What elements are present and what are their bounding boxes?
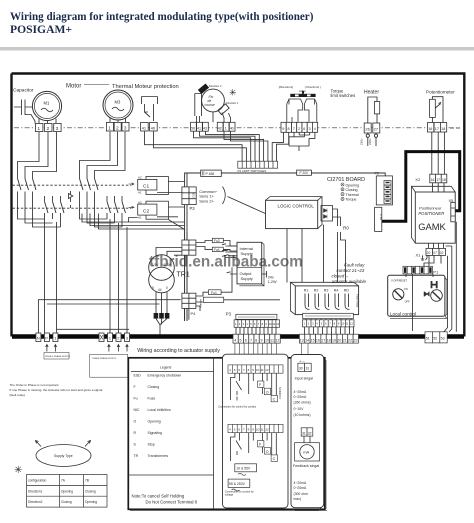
svg-text:Closing: Closing (61, 500, 72, 504)
mechanical interlock (69, 191, 73, 208)
connector X1 (426, 248, 446, 255)
wire heater supply (368, 133, 376, 146)
svg-text:Connection for control by: Connection for control by (225, 489, 255, 493)
wire C2 A1 left (129, 218, 138, 223)
bus terminals 13-23 (299, 334, 358, 343)
svg-text:3: 3 (124, 126, 127, 131)
knob declutch (431, 290, 443, 302)
svg-text:20: 20 (337, 338, 341, 342)
svg-text:4~20mA: 4~20mA (294, 481, 307, 485)
svg-text:Supply: Supply (241, 276, 253, 281)
svg-text:Emergency shutdown: Emergency shutdown (148, 374, 182, 378)
svg-text:02: 02 (440, 251, 444, 255)
svg-text:Opening: Opening (61, 489, 73, 493)
svg-text:P1: P1 (433, 269, 439, 274)
terminal P single (44, 333, 49, 342)
svg-text:S: S (134, 443, 137, 447)
svg-text:2: 2 (298, 127, 300, 131)
contactor coil C2 (129, 206, 135, 208)
svg-text:course: course (205, 103, 215, 107)
connector P2 strip on board (238, 161, 278, 168)
svg-text:4: 4 (234, 338, 236, 342)
svg-text:Potentiometer: Potentiometer (426, 89, 455, 94)
svg-text:P2 LIMIT SWITCHES: P2 LIMIT SWITCHES (238, 169, 267, 173)
terminal 18 (440, 123, 446, 133)
wire right bundle 1 (444, 256, 448, 332)
svg-text:Stop: Stop (148, 443, 155, 447)
svg-text:TR: TR (134, 454, 139, 458)
wire right bundle 2 (446, 246, 452, 332)
terminal 3 three (125, 333, 130, 342)
wire motor leader line (84, 84, 109, 86)
cam direction1 (218, 104, 229, 115)
terminal M3-2 (114, 122, 121, 131)
svg-text:10: 10 (256, 427, 260, 431)
terminal LS-43 (203, 122, 209, 131)
svg-text:Thermal Moteur protection: Thermal Moteur protection (112, 84, 179, 90)
connector P1 (403, 266, 433, 274)
wire neutral link (57, 328, 130, 330)
arrows single phase (46, 345, 57, 352)
connector X2 (430, 174, 447, 183)
connector label box right (303, 313, 354, 318)
svg-text:1: 1 (225, 126, 227, 130)
terminal 41 (141, 122, 149, 131)
terminal 26 (364, 123, 371, 133)
terminal M1-1 (36, 123, 43, 131)
svg-text:230v: 230v (360, 138, 364, 145)
terminal 17 (434, 123, 440, 133)
connector P2 right outer (376, 176, 392, 205)
wire limit switch bundle (194, 131, 268, 161)
relay bank 3d box (291, 282, 359, 314)
svg-text:8: 8 (288, 127, 290, 131)
svg-text:X1: X1 (416, 252, 422, 257)
contactor KM2 contacts upper (80, 179, 99, 191)
svg-text:Direction 1: Direction 1 (226, 101, 239, 105)
wire X2 to GAMK (433, 183, 445, 192)
svg-text:32: 32 (308, 431, 312, 435)
terminal 1 single (53, 333, 58, 342)
wire P5 to fuses (196, 241, 237, 256)
terminal M1-2 (45, 123, 52, 131)
svg-text:22: 22 (348, 338, 352, 342)
limit switch Fin de course (202, 89, 225, 112)
terminal 2 three (116, 333, 121, 342)
svg-text:6: 6 (245, 338, 247, 342)
terminal 1 three (108, 333, 113, 342)
svg-text:Local inhibition: Local inhibition (148, 408, 171, 412)
wire loop B3 (95, 132, 126, 227)
svg-text:10 & 55V: 10 & 55V (236, 467, 251, 471)
svg-text:Direction 2: Direction 2 (209, 84, 222, 88)
svg-text:2: 2 (116, 126, 119, 131)
terminal PE three (99, 333, 104, 342)
svg-text:Closing: Closing (148, 385, 160, 389)
wire loop A2 (25, 132, 53, 223)
svg-text:Positionneur: Positionneur (419, 205, 442, 210)
svg-text:Motor: Motor (66, 84, 81, 90)
svg-text:10: 10 (256, 368, 260, 372)
transformer TR1 (149, 255, 175, 281)
svg-text:8: 8 (255, 338, 257, 342)
wire heater/pot crossties (289, 135, 310, 151)
svg-text:9: 9 (261, 338, 263, 342)
connector P5 (182, 240, 196, 255)
svg-text:Fault relay: Fault relay (344, 263, 365, 268)
svg-text:30: 30 (299, 367, 303, 371)
fuse Fu4 (212, 247, 223, 252)
svg-text:GAMK: GAMK (418, 221, 446, 232)
feedback ranges (294, 481, 308, 501)
main frame (12, 74, 465, 337)
terminal tags TR1 (154, 313, 170, 319)
svg-text:41: 41 (197, 126, 201, 130)
svg-text:4: 4 (314, 127, 316, 131)
svg-text:41: 41 (142, 125, 147, 130)
local control box (390, 278, 447, 319)
svg-text:Transformers: Transformers (148, 454, 169, 458)
switch F row2 (258, 441, 264, 447)
internal/output supply 3d box (240, 242, 265, 285)
wire N to board supply (38, 300, 180, 333)
ellipse prong left (36, 441, 42, 447)
svg-text:17: 17 (436, 178, 440, 182)
svg-text:(260 ohms): (260 ohms) (294, 401, 311, 405)
svg-text:11: 11 (261, 368, 264, 372)
svg-text:NIC: NIC (134, 408, 141, 412)
main supply bus (thick bottom line) (12, 334, 464, 338)
svg-text:Fu3: Fu3 (214, 239, 220, 243)
svg-text:17: 17 (321, 338, 325, 342)
svg-text:Do Not Connect Terminal 8: Do Not Connect Terminal 8 (146, 500, 198, 505)
svg-text:P 456: P 456 (206, 172, 215, 176)
svg-text:CI2701 BOARD: CI2701 BOARD (327, 177, 365, 183)
svg-text:Input singal: Input singal (295, 376, 314, 380)
limit switch bracket (195, 94, 202, 117)
svg-text:P3: P3 (226, 311, 232, 316)
wire P to TR1 tap (47, 303, 160, 305)
label fault relay note (332, 263, 367, 285)
wire supply feeds left (222, 244, 237, 274)
svg-text:0~20mA: 0~20mA (294, 486, 307, 490)
svg-text:9: 9 (152, 286, 154, 290)
svg-text:ESD: ESD (134, 374, 142, 378)
svg-text:Wiring according to actuato: Wiring according to actuator supply (137, 348, 220, 354)
legend table (128, 358, 213, 510)
wire right bundle 3 (455, 222, 457, 332)
svg-text:1,2W: 1,2W (268, 280, 277, 284)
svg-text:If OFF/RESET: If OFF/RESET (392, 279, 408, 282)
svg-text:A2: A2 (138, 175, 142, 179)
svg-text:Thermal: Thermal (346, 193, 359, 197)
connector P200 box (297, 170, 312, 175)
svg-text:Legend: Legend (160, 366, 171, 370)
svg-text:50: 50 (191, 126, 195, 130)
wire bus to signal panel (302, 343, 309, 363)
wire row2 drops (231, 433, 277, 461)
contactor KM1 contacts upper (18, 179, 37, 191)
wire P1 to bus (406, 274, 433, 331)
esd switch row2 (236, 441, 242, 456)
caption three phase box (90, 354, 128, 377)
wire opto out (333, 209, 341, 226)
heater resistor (374, 102, 379, 114)
wire brace leader (228, 197, 266, 214)
svg-text:40: 40 (151, 125, 156, 130)
svg-text:21: 21 (343, 338, 347, 342)
svg-text:17: 17 (435, 127, 439, 131)
contactor KM2 contacts lower (107, 202, 126, 214)
svg-text:Direction1: Direction1 (28, 489, 43, 493)
svg-text:(10 kohms): (10 kohms) (294, 413, 311, 417)
svg-text:18: 18 (327, 338, 331, 342)
svg-text:POSIGAM+: POSIGAM+ (10, 23, 72, 36)
phase dash-dot line (14, 127, 460, 129)
svg-text:44: 44 (158, 288, 162, 292)
svg-text:P2: P2 (375, 172, 380, 176)
svg-text:X2: X2 (415, 177, 421, 182)
svg-text:07: 07 (433, 251, 437, 255)
svg-text:0~20mA: 0~20mA (294, 395, 307, 399)
svg-text:Connection for control by: Connection for control by contact (218, 404, 256, 408)
svg-text:If one Phase is missing, the A: If one Phase is missing, the Actuator wi… (10, 388, 103, 392)
wire loop A1 (18, 132, 45, 219)
svg-text:15: 15 (311, 338, 315, 342)
svg-text:P 200: P 200 (300, 171, 308, 175)
wire limit stubs (197, 112, 231, 122)
svg-text:Signaling: Signaling (148, 431, 162, 435)
svg-text:5: 5 (240, 338, 242, 342)
connector P4b plate (375, 207, 383, 231)
switch O row1 (264, 388, 270, 394)
svg-text:Wiring diagram for integrated: Wiring diagram for integrated modulating… (10, 11, 314, 23)
input ranges (294, 390, 311, 417)
svg-text:tfbrid.en.alibaba.com: tfbrid.en.alibaba.com (149, 254, 303, 271)
board connector cells left (234, 320, 280, 328)
svg-text:Fu4: Fu4 (214, 248, 220, 252)
svg-text:The Order in Phase is not impo: The Order in Phase is not important (10, 383, 59, 387)
cam direction2 (198, 83, 209, 94)
svg-text:O: O (266, 390, 269, 394)
panel cells row2 (228, 424, 283, 432)
fuse Fu3 (212, 238, 223, 243)
svg-text:max): max) (294, 497, 302, 501)
voltage box 55-250 (228, 479, 250, 487)
wire coils to board (157, 182, 185, 230)
svg-text:3: 3 (56, 126, 59, 131)
esd switch row1 (236, 381, 242, 401)
svg-text:Closing: Closing (85, 489, 96, 493)
svg-text:R2: R2 (314, 288, 319, 292)
wire output 24v (262, 271, 267, 278)
wire KM2 outputs to supply (107, 213, 127, 334)
svg-text:53: 53 (441, 337, 445, 341)
svg-text:18: 18 (442, 178, 446, 182)
svg-text:12: 12 (265, 427, 269, 431)
declutch symbol (432, 281, 437, 288)
svg-text:Supply Type: Supply Type (54, 454, 73, 458)
ellipse prong right (85, 441, 91, 447)
svg-text:COR: COR (192, 192, 196, 198)
svg-text:limit switches: limit switches (331, 93, 356, 98)
terminal M3-1 (106, 122, 113, 131)
brace (223, 187, 226, 205)
svg-text:16: 16 (431, 178, 435, 182)
logic control 3d box (266, 197, 323, 229)
svg-text:12: 12 (276, 338, 280, 342)
svg-text:P4: P4 (191, 311, 197, 316)
terminal LS-40 (229, 122, 235, 131)
svg-text:11: 11 (261, 427, 264, 431)
svg-text:C: C (273, 457, 276, 461)
svg-text:[ Direction2 ]: [ Direction2 ] (305, 85, 321, 89)
wire TR1 secondary (156, 292, 167, 313)
dashed link line upper (13, 184, 132, 186)
grey divider (0, 47, 474, 51)
wire row1 drops (231, 373, 277, 400)
positioner GAMK 3d box (412, 186, 456, 243)
svg-text:Feedback singal: Feedback singal (293, 464, 319, 468)
motor M1 (32, 91, 61, 120)
svg-text:C2: C2 (143, 208, 149, 214)
switch F row1 (258, 381, 264, 387)
svg-text:POSITIONER: POSITIONER (418, 211, 444, 216)
svg-text:7: 7 (250, 338, 252, 342)
wire KM1 outputs (45, 213, 61, 334)
svg-text:Fault Relay: Fault Relay (356, 294, 360, 308)
svg-text:7: 7 (293, 127, 295, 131)
wire M1 stubs to terminals (39, 119, 56, 124)
remote control panel (223, 354, 289, 508)
svg-text:4~20mA: 4~20mA (294, 390, 307, 394)
wire logic to relays (287, 225, 346, 283)
svg-text:N: N (37, 336, 40, 341)
svg-text:Sens 2+: Sens 2+ (199, 198, 214, 203)
svg-text:configuration: configuration (28, 479, 46, 483)
voltage box 10-55 (235, 464, 257, 472)
svg-text:20: 20 (427, 251, 431, 255)
svg-text:THREE PHASE SUPPLY: THREE PHASE SUPPLY (92, 357, 117, 360)
svg-text:R0: R0 (343, 226, 349, 231)
motor M3 (103, 90, 133, 120)
connector P456 box (201, 170, 222, 176)
svg-text:RD: RD (344, 288, 350, 292)
svg-text:mA: mA (303, 450, 309, 455)
wire GAMK to X1 (429, 243, 444, 248)
switch C row2 (271, 455, 277, 461)
contactor coil C1 (129, 183, 135, 185)
wire board bus down (185, 230, 187, 322)
thick cable P4 to X5 (381, 152, 460, 222)
terminal LS-50 (191, 122, 197, 131)
svg-text:9: 9 (282, 127, 284, 131)
svg-text:Fu: Fu (134, 397, 138, 401)
wire heater loop (368, 97, 377, 123)
torque switch 2 body (304, 99, 316, 122)
connector label box left (236, 314, 277, 319)
svg-text:C1: C1 (143, 183, 149, 189)
wire TR1 primary (156, 248, 182, 257)
svg-text:Opening: Opening (148, 420, 161, 424)
dashed link line lower (13, 207, 132, 209)
connector P2 right cells (384, 181, 391, 204)
ground marks below X1 (421, 255, 427, 260)
svg-text:M3: M3 (115, 100, 121, 105)
svg-text:C: C (273, 398, 276, 402)
svg-text:Torque: Torque (346, 198, 357, 202)
svg-text:14: 14 (305, 338, 309, 342)
terminal M1-3 (54, 123, 61, 131)
svg-text:Heater: Heater (364, 90, 379, 96)
svg-text:P 40: P 40 (379, 214, 383, 220)
signal panel (295, 505, 324, 510)
svg-text:contact 21~23: contact 21~23 (337, 268, 365, 273)
terminal 40 (150, 122, 158, 131)
svg-text:✳: ✳ (14, 465, 22, 476)
svg-text:11: 11 (270, 338, 274, 342)
svg-text:42: 42 (218, 126, 222, 130)
svg-text:Direction2: Direction2 (28, 500, 43, 504)
svg-text:COMMON: COMMON (278, 387, 282, 399)
svg-text:R: R (134, 431, 137, 435)
optocoupler (321, 206, 333, 222)
CI2701 board outline (185, 173, 386, 321)
svg-text:10: 10 (265, 338, 269, 342)
supply type ellipse (36, 445, 91, 467)
wire loop B2 (87, 132, 118, 223)
svg-text:26: 26 (365, 127, 370, 132)
wire loop B1 (80, 132, 111, 219)
svg-text:1: 1 (38, 126, 41, 131)
svg-text:27: 27 (374, 127, 379, 132)
svg-text:+ −: + − (299, 359, 305, 364)
svg-text:52: 52 (433, 337, 437, 341)
svg-text:0: 0 (166, 286, 168, 290)
legend outer frame (128, 358, 324, 510)
svg-text:18: 18 (441, 127, 445, 131)
svg-text:LOGIC CONTROL: LOGIC CONTROL (278, 203, 315, 208)
wire bus to remote panel (235, 343, 276, 365)
svg-text:voltage: voltage (225, 493, 234, 497)
switch O row2 (264, 448, 270, 454)
arrows three phase (108, 345, 129, 352)
svg-text:0−10V: 0−10V (294, 407, 305, 411)
svg-text:19: 19 (332, 338, 336, 342)
terminal 16 (428, 123, 434, 133)
note text left (10, 383, 103, 397)
svg-text:✳: ✳ (229, 88, 237, 98)
wire loop A3 (33, 132, 61, 227)
component primaire (203, 297, 223, 302)
terminal M3-3 (122, 122, 129, 131)
mA meter (304, 436, 310, 443)
svg-text:R4: R4 (334, 288, 339, 292)
svg-text:Fu1: Fu1 (211, 291, 217, 295)
potentiometer (430, 99, 436, 117)
svg-text:SINGLE PHASE SUPPLY: SINGLE PHASE SUPPLY (45, 355, 71, 358)
wire thermal to board (145, 131, 247, 161)
wire M3 stubs (110, 118, 126, 123)
wire fu1 links (185, 267, 280, 320)
contactor KM1 contacts lower (45, 202, 65, 214)
bus terminals 4-12 (233, 334, 280, 343)
svg-text:31: 31 (302, 431, 306, 435)
svg-text:P: P (45, 336, 48, 341)
svg-text:43: 43 (203, 126, 207, 130)
svg-text:24v: 24v (268, 275, 274, 279)
wire TR1 converge (156, 319, 167, 335)
